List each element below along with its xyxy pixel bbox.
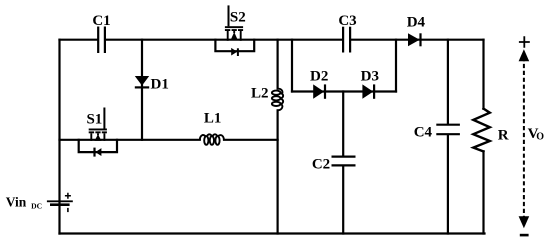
svg-text:L2: L2	[251, 85, 269, 101]
svg-text:D3: D3	[361, 68, 379, 84]
svg-text:Vin: Vin	[6, 195, 27, 210]
svg-text:C1: C1	[92, 13, 110, 29]
svg-text:L1: L1	[204, 110, 222, 126]
svg-text:C2: C2	[312, 156, 330, 172]
svg-text:DC: DC	[31, 201, 42, 210]
svg-text:R: R	[498, 128, 509, 144]
svg-text:D4: D4	[407, 15, 426, 31]
svg-text:D1: D1	[151, 76, 169, 92]
svg-text:O: O	[536, 132, 544, 143]
svg-text:D2: D2	[310, 68, 328, 84]
svg-text:C3: C3	[338, 13, 356, 29]
svg-text:C4: C4	[414, 124, 433, 140]
svg-text:S1: S1	[86, 111, 102, 127]
svg-text:S2: S2	[230, 10, 246, 26]
